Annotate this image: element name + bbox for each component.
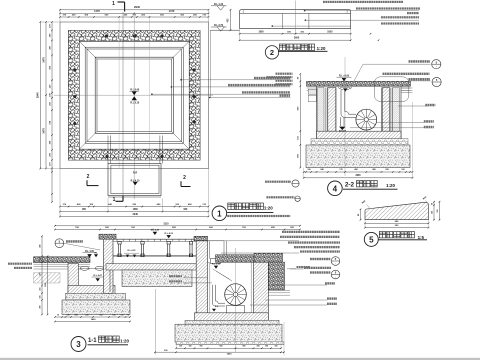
svg-text:R.L 4.40: R.L 4.40	[151, 228, 160, 231]
svg-text:R.L 5.60: R.L 5.60	[130, 90, 139, 92]
svg-text:230: 230	[85, 314, 88, 316]
svg-text:R.R: R.R	[133, 171, 137, 174]
svg-text:5: 5	[369, 236, 374, 245]
svg-text:2600: 2600	[355, 175, 361, 177]
svg-text:500: 500	[220, 346, 223, 348]
svg-text:-: -	[59, 245, 60, 248]
svg-text:-: -	[436, 83, 437, 86]
svg-text:2: 2	[270, 48, 274, 57]
svg-text:4: 4	[333, 184, 338, 193]
svg-text:1: 1	[112, 1, 115, 7]
svg-text:2-2: 2-2	[345, 182, 355, 189]
svg-text:R.L 4.32: R.L 4.32	[128, 249, 137, 252]
svg-text:R.L 4.95: R.L 4.95	[85, 250, 94, 253]
svg-text:2: 2	[87, 174, 90, 180]
svg-text:190: 190	[257, 346, 260, 348]
svg-text:300: 300	[99, 314, 102, 316]
svg-text:1:20: 1:20	[264, 206, 273, 211]
svg-text:500: 500	[243, 346, 246, 348]
svg-text:190: 190	[200, 346, 203, 348]
svg-text:2940: 2940	[134, 5, 140, 9]
svg-text:3110: 3110	[164, 223, 170, 225]
svg-text:1470: 1470	[169, 9, 175, 13]
svg-text:1080: 1080	[133, 209, 139, 211]
svg-text:R.L 4.47: R.L 4.47	[94, 274, 103, 277]
svg-text:1000: 1000	[258, 31, 264, 33]
svg-text:1400: 1400	[91, 318, 97, 321]
svg-text:150: 150	[265, 346, 268, 348]
svg-text:1470: 1470	[94, 9, 100, 13]
svg-text:2600: 2600	[294, 37, 300, 40]
svg-text:1: 1	[217, 209, 222, 218]
svg-text:100: 100	[179, 346, 182, 348]
svg-text:1:20: 1:20	[120, 338, 129, 343]
svg-text:1:20: 1:20	[317, 46, 326, 51]
svg-text:R.L 5.10: R.L 5.10	[130, 102, 139, 104]
svg-text:-: -	[335, 262, 336, 265]
svg-text:100: 100	[66, 314, 69, 316]
svg-text:190: 190	[112, 314, 115, 316]
svg-text:1: 1	[113, 197, 116, 203]
svg-text:100: 100	[120, 314, 123, 316]
svg-text:R.L 4.33: R.L 4.33	[165, 232, 174, 235]
svg-text:R.L 3.60: R.L 3.60	[212, 264, 221, 266]
svg-text:190: 190	[74, 314, 77, 316]
svg-text:-: -	[436, 66, 437, 69]
svg-text:70: 70	[57, 314, 59, 316]
svg-text:1470: 1470	[42, 57, 45, 63]
svg-text:2: 2	[183, 175, 186, 181]
svg-text:1:20: 1:20	[386, 183, 395, 188]
svg-text:3: 3	[76, 340, 81, 349]
svg-text:1400: 1400	[227, 353, 233, 356]
svg-text:-: -	[335, 276, 336, 279]
svg-text:2940: 2940	[36, 92, 40, 98]
svg-text:150: 150	[189, 346, 192, 348]
svg-text:1:5: 1:5	[418, 235, 425, 240]
svg-text:1470: 1470	[42, 128, 45, 134]
svg-text:2940: 2940	[133, 213, 139, 216]
svg-text:1000: 1000	[327, 31, 333, 33]
svg-text:70: 70	[127, 314, 129, 316]
svg-text:1-1: 1-1	[88, 338, 97, 344]
svg-text:100: 100	[275, 346, 278, 348]
